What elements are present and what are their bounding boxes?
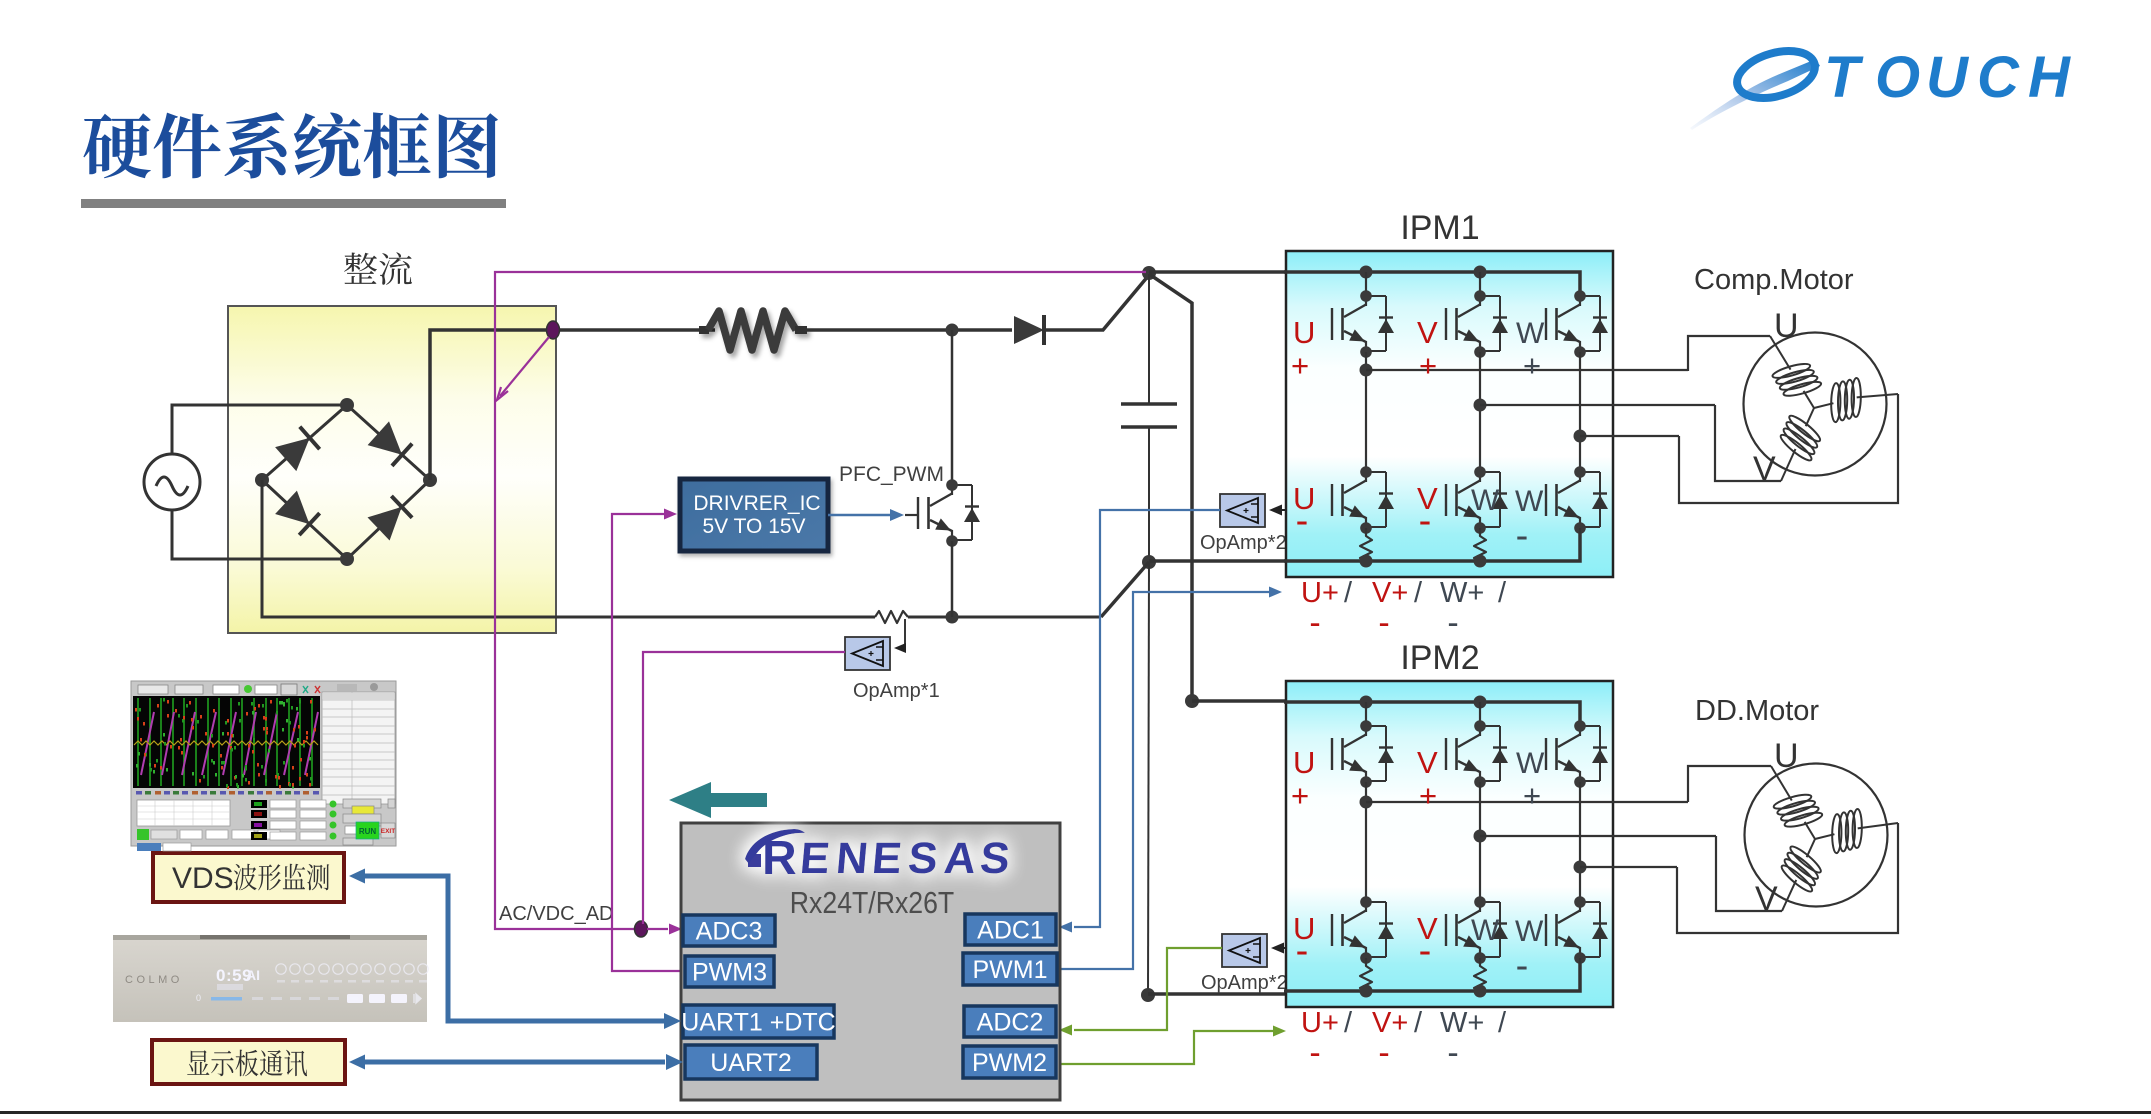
node IPM1-WL collector — [1574, 466, 1586, 478]
svg-text:/: / — [1498, 577, 1507, 609]
node IPM2 phase W output — [1574, 861, 1587, 874]
node IPM1 top bus V — [1474, 266, 1487, 279]
bridge diode D4 (bottom-right edge) — [368, 507, 402, 541]
svg-text:IPM2: IPM2 — [1400, 639, 1479, 677]
node AC/VDC_AD junction (purple) — [635, 921, 648, 937]
svg-text:U: U — [1293, 745, 1315, 780]
label 整流 (rectifier) — [344, 252, 412, 285]
boost diode D5 — [1014, 316, 1044, 344]
wire IPM1 W emitter to rail — [1579, 528, 1581, 535]
svg-text:/: / — [1344, 577, 1353, 609]
diode IPM2-UH anti-parallel — [1360, 720, 1394, 788]
svg-text:Rx24T/Rx26T: Rx24T/Rx26T — [790, 886, 954, 920]
svg-text:/: / — [1344, 1007, 1353, 1039]
node IPM2-WH collector — [1574, 720, 1586, 732]
svg-text:R: R — [762, 832, 797, 885]
transistor IPM1-VH (IGBT) — [1446, 296, 1480, 352]
svg-text:UART1 +DTC: UART1 +DTC — [681, 1009, 835, 1037]
company logo eTOUCH — [1690, 43, 2071, 130]
node IPM2 phase V output — [1474, 830, 1487, 843]
wire IPM2 U to DD.Motor — [1688, 766, 1771, 802]
diode Q1 anti-parallel — [946, 479, 980, 547]
node IPM2-VL collector — [1474, 896, 1486, 908]
wire OpAmp*2 output to ADC1 (blue) — [1074, 510, 1220, 927]
svg-text:OpAmp*2: OpAmp*2 — [1200, 532, 1287, 554]
svg-text:V: V — [1755, 880, 1778, 918]
svg-text:-: - — [1378, 1034, 1389, 1072]
diode IPM1-VH anti-parallel — [1474, 290, 1508, 358]
wire OpAmp*2 output to ADC2 (green) — [1074, 948, 1222, 1030]
transistor IPM1-WH (IGBT) — [1546, 296, 1580, 352]
title underline bar — [81, 199, 506, 208]
wire IPM1 W to Comp.Motor — [1679, 394, 1898, 503]
wire driver output to Q1 gate — [828, 514, 891, 517]
svg-text:DRIVRER_IC: DRIVRER_IC — [693, 492, 820, 515]
wire junction to capacitor — [1148, 274, 1150, 404]
transistor IPM2-WH (IGBT) — [1546, 726, 1580, 782]
node IPM1 phase W output — [1574, 430, 1587, 443]
wire IPM1 U to Comp.Motor — [1688, 336, 1770, 371]
wire PWM1 to IPM1 gates (blue) — [1057, 592, 1271, 969]
wire IPM2 V collector — [1479, 702, 1481, 726]
svg-text:/: / — [1414, 577, 1423, 609]
Renesas logo — [745, 829, 1012, 885]
wire IPM2 bottom bus — [1284, 963, 1580, 991]
svg-text:+: + — [1523, 348, 1541, 383]
svg-text:-: - — [1309, 1034, 1320, 1072]
DC- node IPM1 — [1142, 555, 1156, 569]
svg-text:U: U — [1926, 45, 1970, 110]
wire IPM1 V to Comp.Motor — [1715, 405, 1781, 481]
wire AC/VDC sense (purple) DC bus to ADC3 — [495, 272, 1146, 929]
node IPM1-WL emitter — [1574, 522, 1586, 534]
MCU port PWM2 — [963, 1046, 1056, 1078]
svg-text:-: - — [1419, 930, 1432, 972]
MCU port PWM3 — [685, 956, 774, 987]
svg-text:+: + — [1523, 778, 1541, 813]
node IPM2 V rail — [1474, 985, 1487, 998]
svg-text:UART2: UART2 — [710, 1049, 792, 1077]
bridge diode D3 (left-bottom edge) — [275, 491, 309, 524]
wire IPM1 top bus — [1284, 272, 1580, 292]
node Q1 emitter — [946, 535, 958, 547]
photo: COLMO display panel — [113, 935, 428, 1022]
svg-text:COLMO: COLMO — [125, 974, 183, 986]
diode IPM1-UL anti-parallel — [1360, 466, 1394, 534]
bridge node top — [340, 398, 354, 412]
wire purple into ADC3 — [647, 928, 668, 930]
wire capacitor to DC- node — [1148, 427, 1150, 562]
svg-text:PWM3: PWM3 — [692, 959, 767, 987]
bridge diode D1 (left-top edge) — [275, 438, 310, 471]
MCU port UART1 — [681, 1005, 835, 1038]
DC bus junction node — [1142, 266, 1156, 280]
wire IPM1 phase U to motor — [1366, 369, 1688, 371]
wire IPM2 W to DD.Motor — [1677, 823, 1898, 933]
node IPM1-VH emitter — [1474, 346, 1486, 358]
svg-text:DD.Motor: DD.Motor — [1695, 695, 1819, 727]
diode IPM1-VL anti-parallel — [1474, 466, 1508, 534]
svg-text:+: + — [1291, 348, 1309, 383]
slide title 硬件系统框图 — [83, 112, 498, 179]
svg-text:ADC1: ADC1 — [977, 917, 1044, 945]
wire IPM2 V to DD.Motor — [1716, 836, 1782, 911]
IPM2 module box — [1286, 681, 1613, 1007]
DC- node IPM2 — [1141, 988, 1155, 1002]
node IPM2 U rail — [1360, 985, 1373, 998]
label IPM1 gate signals U+/- V+/- W+/- — [1301, 577, 1507, 642]
svg-text:E: E — [798, 834, 832, 883]
node IPM2 top bus U — [1360, 696, 1373, 709]
svg-text:Comp.Motor: Comp.Motor — [1694, 264, 1854, 296]
screenshot: VDS waveform monitor application — [131, 681, 396, 851]
bridge diode D2 (top-right edge) — [368, 421, 402, 454]
svg-text:/: / — [1498, 1007, 1507, 1039]
MCU port UART2 — [685, 1045, 817, 1079]
svg-text:U: U — [1774, 307, 1799, 345]
bottom slide border — [0, 1111, 2151, 1114]
bridge rectifier wiring — [262, 405, 430, 559]
bridge node left — [255, 473, 269, 487]
wire IPM2 V phase leg — [1479, 782, 1481, 902]
diode IPM1-WH anti-parallel — [1574, 290, 1608, 358]
shunt resistor IPM1-V — [1474, 528, 1486, 562]
node IPM2-UL emitter — [1360, 952, 1372, 964]
wire IPM2 phase W to motor — [1580, 866, 1677, 868]
wire DC- down to IPM2 bottom — [1148, 562, 1149, 995]
svg-text:W: W — [1516, 317, 1545, 350]
svg-text:W: W — [1516, 747, 1545, 780]
AC source V1 — [144, 454, 200, 510]
diode IPM2-VH anti-parallel — [1474, 720, 1508, 788]
shunt resistor R1 — [875, 611, 908, 623]
bridge node right — [423, 473, 437, 487]
wire D5 to DC bus junction — [1044, 275, 1149, 330]
wire IPM2 W collector — [1579, 702, 1581, 726]
svg-text:W: W — [1515, 485, 1544, 518]
node IPM2-VH emitter — [1474, 776, 1486, 788]
label IPM2 gate signals U+/- V+/- W+/- — [1301, 1007, 1507, 1072]
wire DC+ bus to IPM1 — [1149, 270, 1580, 274]
svg-text:-: - — [1447, 604, 1458, 642]
bridge node bottom — [340, 552, 354, 566]
rectifier highlight box — [228, 306, 556, 633]
wire DC- bus to IPM1 bottom — [1149, 559, 1580, 563]
diode IPM2-WH anti-parallel — [1574, 720, 1608, 788]
wire IPM2 shunt sense to OpAmp*2 — [1280, 947, 1286, 949]
wire DC+ to IPM2 top rail — [1192, 699, 1580, 703]
wire IPM1 phase W to motor — [1580, 435, 1679, 437]
wire IPM1 W phase leg — [1579, 352, 1581, 472]
svg-text:V: V — [1417, 315, 1438, 350]
inductor L1 — [699, 311, 807, 350]
wire node to Q1 collector — [951, 330, 954, 485]
wire AC to bridge bottom — [172, 510, 347, 559]
svg-text:+: + — [1419, 778, 1437, 813]
node IPM1-UL collector — [1360, 466, 1372, 478]
node IPM2-UH collector — [1360, 720, 1372, 732]
svg-text:+: + — [1291, 778, 1309, 813]
transistor IPM2-VL (IGBT) — [1446, 902, 1480, 958]
svg-text:PFC_PWM: PFC_PWM — [839, 463, 944, 486]
transistor IPM2-VH (IGBT) — [1446, 726, 1480, 782]
wire IPM2 W phase leg — [1579, 782, 1581, 902]
wire IPM2 U phase leg — [1365, 782, 1367, 902]
wire Q1 emitter to rail — [951, 541, 954, 617]
transistor IPM1-WL (IGBT) — [1546, 472, 1580, 528]
svg-text:VDS: VDS — [172, 862, 234, 895]
op-amp U5 OpAmp*2 (IPM2 current sense) — [1222, 934, 1267, 967]
diode IPM2-UL anti-parallel — [1360, 896, 1394, 964]
node IPM2 feed — [1185, 694, 1199, 708]
node IPM2-VL emitter — [1474, 952, 1486, 964]
motor DD.Motor — [1745, 764, 1899, 912]
label box VDS波形监测 — [153, 853, 344, 902]
node IPM1-WH collector — [1574, 290, 1586, 302]
op-amp U3 OpAmp*1 — [845, 637, 890, 670]
wire IPM2 W emitter to rail — [1579, 958, 1581, 965]
svg-text:S: S — [906, 834, 940, 883]
node IPM2-UL collector — [1360, 896, 1372, 908]
node boost switch top — [946, 324, 959, 337]
node IPM1-VH collector — [1474, 290, 1486, 302]
shunt resistor IPM2-U — [1360, 958, 1372, 992]
svg-text:PWM1: PWM1 — [973, 956, 1048, 984]
transistor IPM1-UH (IGBT) — [1332, 296, 1366, 352]
node IPM1-UH collector — [1360, 290, 1372, 302]
transistor IPM1-UL (IGBT) — [1332, 472, 1366, 528]
svg-text:-: - — [1516, 515, 1529, 557]
transistor IPM2-WL (IGBT) — [1546, 902, 1580, 958]
svg-text:U: U — [1293, 315, 1315, 350]
node IPM2-UH emitter — [1360, 776, 1372, 788]
wire IPM1 shunt sense to OpAmp*2 — [1278, 509, 1286, 511]
wire IPM1 bottom bus — [1284, 533, 1580, 561]
teal arrow marker — [669, 782, 767, 818]
wire Q1 gate lead — [905, 514, 918, 516]
svg-text:IPM1: IPM1 — [1400, 209, 1479, 247]
svg-text:EXIT: EXIT — [381, 828, 395, 835]
shunt resistor IPM2-V — [1474, 958, 1486, 992]
svg-text:N: N — [834, 834, 870, 883]
node IPM1 U rail — [1360, 555, 1373, 568]
wire IPM1 W collector — [1579, 272, 1581, 296]
shunt resistor IPM1-U — [1360, 528, 1372, 562]
wire DC- diagonal to shunt rail — [1101, 562, 1149, 617]
wire shunt to OpAmp*1 input — [901, 619, 905, 648]
MCU U6 Renesas Rx24T/Rx26T box — [681, 823, 1060, 1100]
wire IPM1 U phase leg — [1365, 352, 1367, 472]
svg-text:V: V — [1417, 745, 1438, 780]
motor Comp.Motor — [1744, 333, 1899, 482]
svg-text:E: E — [870, 834, 904, 883]
MCU port PWM1 — [963, 953, 1057, 985]
node IPM2-WL collector — [1574, 896, 1586, 908]
transistor IPM2-UH (IGBT) — [1332, 726, 1366, 782]
node IPM1-WH emitter — [1574, 346, 1586, 358]
svg-text:ADC3: ADC3 — [696, 918, 763, 946]
wire IPM2 top bus — [1284, 702, 1580, 722]
svg-text:/: / — [1414, 1007, 1423, 1039]
wire IPM1 V collector — [1479, 272, 1481, 296]
diode IPM2-WL anti-parallel — [1574, 896, 1608, 964]
node IPM1-VL collector — [1474, 466, 1486, 478]
svg-text:W: W — [1471, 484, 1500, 517]
node IPM1-UL emitter — [1360, 522, 1372, 534]
svg-text:AC/VDC_AD: AC/VDC_AD — [499, 903, 613, 925]
wire bridge DC+ up and right — [430, 330, 715, 480]
svg-text:W: W — [1515, 915, 1544, 948]
svg-text:-: - — [1516, 945, 1529, 987]
svg-text:-: - — [1419, 500, 1432, 542]
wire VDS monitor to UART1 (blue) — [357, 876, 665, 1021]
node IPM2-VH collector — [1474, 720, 1486, 732]
label box 显示板通讯 — [152, 1040, 345, 1084]
node PFC emitter on rail — [946, 611, 959, 624]
node IPM1 top bus U — [1360, 266, 1373, 279]
transistor IPM2-UL (IGBT) — [1332, 902, 1366, 958]
svg-text:A: A — [942, 834, 978, 883]
transistor IPM1-VL (IGBT) — [1446, 472, 1480, 528]
transistor Q1 (IGBT) — [918, 485, 952, 541]
svg-text:U: U — [1774, 737, 1799, 775]
svg-text:-: - — [1296, 500, 1309, 542]
svg-text:0: 0 — [196, 993, 201, 1003]
MCU port ADC3 — [683, 915, 775, 946]
svg-text:OpAmp*1: OpAmp*1 — [853, 680, 940, 702]
svg-text:-: - — [1309, 604, 1320, 642]
node IPM1 V rail — [1474, 555, 1487, 568]
svg-text:AI: AI — [246, 967, 260, 983]
node IPM2 phase U output — [1360, 796, 1373, 809]
wire IPM1 V phase leg — [1479, 352, 1481, 472]
svg-text:+: + — [1419, 348, 1437, 383]
svg-text:S: S — [978, 834, 1012, 883]
MCU port ADC2 — [964, 1006, 1056, 1037]
wire DC+ bus drop to IPM2 — [1149, 274, 1192, 701]
svg-text:-: - — [1447, 1034, 1458, 1072]
svg-text:RUN: RUN — [359, 827, 377, 836]
svg-text:C: C — [1977, 45, 2020, 110]
driver IC U2 DRIVRER_IC — [680, 479, 828, 551]
node IPM1-VL emitter — [1474, 522, 1486, 534]
wire display board comm to UART2 (blue) — [357, 1060, 665, 1065]
node Q1 collector — [946, 479, 958, 491]
node IPM2-WL emitter — [1574, 952, 1586, 964]
svg-text:V: V — [1753, 450, 1776, 488]
node IPM1-UH emitter — [1360, 346, 1372, 358]
wire OpAmp*1 output to ADC3 node (purple) — [643, 652, 845, 924]
IPM1 module box — [1286, 251, 1613, 577]
svg-text:ADC2: ADC2 — [977, 1009, 1044, 1037]
svg-text:O: O — [1875, 45, 1920, 110]
node IPM1 phase U output — [1360, 364, 1373, 377]
node AC sense tap (purple) — [547, 321, 560, 339]
wire IPM1 U collector — [1365, 272, 1367, 296]
node IPM1 phase V output — [1474, 399, 1487, 412]
capacitor C1 — [1121, 402, 1177, 406]
svg-text:5V TO 15V: 5V TO 15V — [702, 515, 805, 538]
node IPM2-WH emitter — [1574, 776, 1586, 788]
wire PWM3 to driver IC (purple) — [612, 514, 684, 971]
diode IPM2-VL anti-parallel — [1474, 896, 1508, 964]
svg-text:T: T — [1824, 45, 1864, 110]
label IPM2 phase letters — [1291, 745, 1545, 987]
node IPM2 top bus V — [1474, 696, 1487, 709]
op-amp U4 OpAmp*2 (IPM1 current sense) — [1220, 494, 1265, 527]
svg-text:OpAmp*2: OpAmp*2 — [1201, 972, 1288, 994]
wire PWM2 to IPM2 gates (green) — [1057, 1031, 1275, 1064]
svg-text:W: W — [1471, 914, 1500, 947]
diode IPM1-UH anti-parallel — [1360, 290, 1394, 358]
svg-text:PWM2: PWM2 — [972, 1049, 1047, 1077]
MCU port ADC1 — [965, 914, 1056, 945]
wire L1 to node — [804, 328, 1012, 332]
arrow AC sense tap to purple line — [500, 337, 549, 396]
svg-text:-: - — [1378, 604, 1389, 642]
wire IPM2 phase V to motor — [1480, 835, 1716, 837]
wire DC- to IPM2 bottom rail — [1148, 992, 1580, 996]
label Rx24T/Rx26T — [790, 886, 954, 920]
svg-text:H: H — [2028, 45, 2071, 110]
svg-text:-: - — [1296, 930, 1309, 972]
wire bridge DC- down — [262, 480, 875, 617]
wire bottom rail shunt to diagonal — [908, 616, 1101, 619]
wire IPM2 phase U to motor — [1366, 801, 1688, 803]
label IPM1 phase letters — [1291, 315, 1545, 557]
wire IPM1 phase V to motor — [1480, 404, 1715, 406]
wire IPM2 U collector — [1365, 702, 1367, 726]
wire AC to bridge top — [172, 405, 347, 454]
diode IPM1-WL anti-parallel — [1574, 466, 1608, 534]
